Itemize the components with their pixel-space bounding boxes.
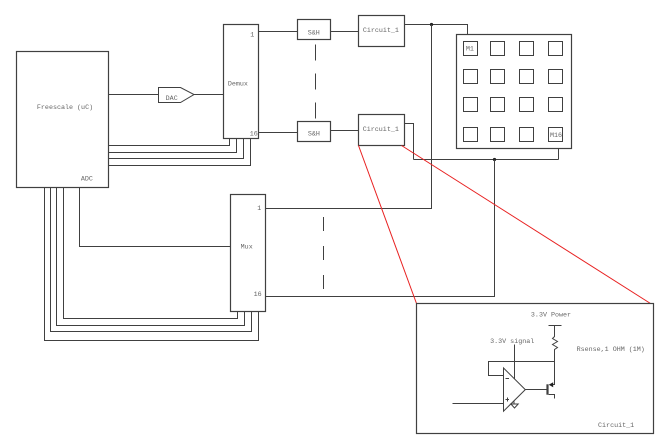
dashed ellipsis between Mux channels — [323, 217, 325, 290]
electrode M9 — [464, 98, 478, 112]
wire ADC bus line 3 — [51, 188, 252, 332]
wire DAC to Demux — [194, 94, 224, 96]
DAC converter symbol — [159, 88, 195, 104]
svg-text:Freescale (uC): Freescale (uC) — [37, 104, 93, 112]
electrode M8 — [549, 70, 563, 84]
wire Demux select bus line 2 — [109, 139, 237, 153]
op-amp U2 — [504, 368, 526, 411]
svg-text:Rsense,1 OHM (1M): Rsense,1 OHM (1M) — [577, 346, 645, 354]
block Circuit_1 (channel 16) — [359, 115, 405, 146]
electrode M13 — [464, 128, 478, 142]
wire junction ch16 down to Mux pin16 — [266, 160, 495, 297]
electrode M2 — [491, 42, 505, 56]
svg-text:1: 1 — [257, 205, 261, 213]
block S&H (channel 1) — [298, 20, 331, 40]
electrode M7 — [520, 70, 534, 84]
electrode M12 — [549, 98, 563, 112]
dashed ellipsis between S&H channels — [315, 45, 317, 120]
electrode M15 — [520, 128, 534, 142]
svg-text:Mux: Mux — [241, 243, 253, 251]
wire Circuit_1 ch16 output step — [405, 124, 414, 160]
wire non-inverting input — [453, 403, 504, 405]
wire Demux pin1 to S&H — [259, 31, 298, 33]
wire ADC bus line 1 (innermost) — [64, 188, 238, 319]
svg-text:Circuit_1: Circuit_1 — [363, 126, 399, 134]
wire resistor to drain node — [554, 351, 556, 362]
source connection — [549, 395, 555, 399]
wire Circuit_1 ch1 output to matrix M1 — [405, 25, 468, 35]
wire ADC bus line 4 (outermost) — [45, 188, 259, 341]
resistor Rsense — [553, 335, 558, 351]
transistor Q1 — [548, 362, 555, 399]
svg-text:ADC: ADC — [81, 176, 93, 184]
zoom callout red line right — [402, 146, 651, 304]
electrode M11 — [520, 98, 534, 112]
svg-text:S&H: S&H — [308, 131, 320, 139]
wire Demux select bus line 4 (outermost) — [109, 139, 251, 166]
svg-text:Circuit_1: Circuit_1 — [363, 27, 399, 35]
electrode M6 — [491, 70, 505, 84]
electrode M14 — [491, 128, 505, 142]
zoom callout red line left — [359, 146, 417, 304]
pin plus marker — [506, 398, 510, 402]
block electrode matrix — [457, 35, 572, 149]
wire bottom rail to matrix M16 — [414, 159, 559, 161]
svg-text:3.3V signal: 3.3V signal — [490, 338, 534, 346]
svg-text:3.3V Power: 3.3V Power — [531, 312, 571, 320]
pin minus marker — [506, 378, 510, 380]
wire junction ch1 down to Mux pin1 — [266, 25, 432, 209]
wire Demux pin16 to S&H — [259, 132, 298, 134]
electrode M1 — [464, 42, 478, 56]
svg-text:M1: M1 — [466, 46, 474, 54]
svg-text:16: 16 — [254, 291, 262, 299]
wire Demux select bus line 3 — [109, 139, 244, 159]
block Demux — [224, 25, 259, 139]
svg-text:M16: M16 — [550, 132, 562, 140]
block Mux — [231, 195, 266, 312]
block Circuit_1 detail view — [417, 304, 654, 434]
block U1 Freescale (uC) — [17, 52, 109, 188]
ground symbol op-amp — [511, 401, 518, 408]
electrode M5 — [464, 70, 478, 84]
drain connection with arrow — [552, 362, 555, 385]
svg-text:1: 1 — [250, 32, 254, 40]
junction node ch16 — [493, 158, 496, 161]
electrode M3 — [520, 42, 534, 56]
wire S&H to Circuit_1 (channel 16) — [331, 130, 359, 132]
electrode M4 — [549, 42, 563, 56]
wire 3.3V signal to op-amp supply — [514, 345, 516, 380]
svg-text:Circuit_1: Circuit_1 — [598, 422, 634, 430]
svg-text:Demux: Demux — [228, 80, 248, 88]
wire Mux output to uC ADC — [80, 188, 231, 247]
wire feedback from drain node to op-amp inverting input — [489, 362, 555, 376]
electrode M16 — [549, 128, 563, 142]
block Circuit_1 (channel 1) — [359, 16, 405, 47]
electrode M10 — [491, 98, 505, 112]
wire uC to DAC — [109, 94, 159, 96]
wire ADC bus line 2 — [57, 188, 245, 326]
wire matrix bottom stub — [558, 149, 560, 160]
svg-text:16: 16 — [250, 131, 258, 139]
wire S&H to Circuit_1 (channel 1) — [331, 31, 359, 33]
block S&H (channel 16) — [298, 122, 331, 142]
wire Demux select bus line 1 (innermost) — [109, 139, 230, 146]
svg-text:S&H: S&H — [308, 29, 320, 37]
junction node ch1 — [430, 23, 433, 26]
power rail symbol 3.3V — [549, 326, 562, 335]
svg-text:DAC: DAC — [166, 95, 178, 103]
wire op-amp output to transistor gate — [525, 389, 546, 391]
